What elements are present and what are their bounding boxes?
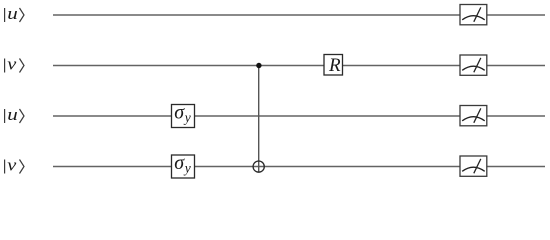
- wire CNOT vertical: [258, 66, 260, 173]
- node |v> label qubit 4: [5, 156, 24, 175]
- node |v> label qubit 2: [5, 55, 24, 74]
- measurement meter qubit 4: [460, 156, 487, 176]
- control dot on qubit 2: [256, 63, 261, 68]
- gate sigma_y on qubit 4: [172, 152, 195, 178]
- wire qubit 4: [53, 166, 545, 168]
- svg-text:y: y: [183, 110, 191, 125]
- wire qubit 1: [53, 14, 545, 16]
- measurement meter qubit 3: [460, 106, 487, 126]
- svg-text:v: v: [7, 55, 17, 74]
- svg-text:u: u: [7, 105, 17, 124]
- measurement meter qubit 1: [460, 5, 487, 25]
- measurement meter qubit 2: [460, 55, 487, 75]
- svg-text:σ: σ: [174, 102, 185, 124]
- svg-text:y: y: [183, 161, 191, 176]
- node |u> label qubit 1: [5, 4, 24, 23]
- node |u> label qubit 3: [5, 105, 24, 124]
- gate R on qubit 2: [324, 55, 343, 77]
- svg-text:R: R: [328, 55, 341, 76]
- svg-text:σ: σ: [174, 152, 185, 174]
- svg-text:v: v: [7, 156, 17, 175]
- svg-text:u: u: [7, 4, 17, 23]
- CNOT target on qubit 4: [253, 161, 264, 172]
- wire qubit 3: [53, 115, 545, 117]
- gate sigma_y on qubit 3: [172, 102, 195, 128]
- wire qubit 2: [53, 65, 545, 67]
